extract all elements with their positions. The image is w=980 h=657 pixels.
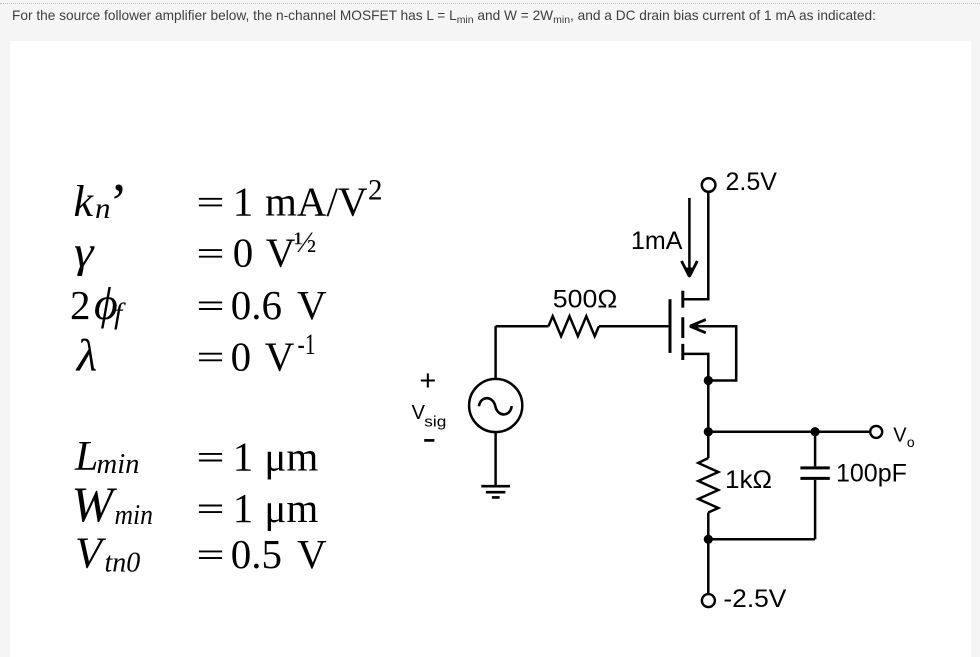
capacitor CL plates: [800, 468, 829, 479]
svg-text:2: 2: [70, 282, 91, 328]
wire Vsig top lead: [494, 326, 497, 379]
svg-text:V: V: [266, 230, 296, 276]
current arrow 1mA shaft: [688, 198, 691, 272]
svg-text:V: V: [893, 425, 907, 447]
current arrow 1mA head fill: [685, 268, 694, 279]
wire Vsig bottom lead: [494, 432, 497, 485]
svg-text:0: 0: [231, 333, 252, 379]
svg-text:100pF: 100pF: [836, 460, 907, 488]
svg-text:sig: sig: [424, 413, 446, 430]
equation value 1 um: [233, 434, 319, 480]
svg-text:mA/V: mA/V: [265, 178, 368, 224]
label Vsig: [412, 402, 447, 431]
svg-text:½: ½: [294, 226, 317, 259]
MOSFET gate bar: [669, 299, 672, 353]
MOSFET drain stub: [683, 298, 709, 301]
svg-text:2: 2: [368, 174, 383, 207]
capacitor CL leads: [814, 432, 817, 540]
wire bottom node: [708, 538, 815, 541]
equals row 4: [199, 354, 222, 361]
equation variable Vtn0: [75, 529, 140, 579]
equation variable 2 phi f: [70, 278, 126, 330]
current arrow 1mA head: [682, 261, 698, 277]
MOSFET body line: [690, 326, 736, 380]
svg-text:o: o: [907, 434, 915, 450]
svg-text:k: k: [74, 177, 95, 226]
equals row 2: [199, 250, 222, 257]
svg-text:L: L: [74, 434, 98, 480]
junction dot bottom node: [704, 535, 713, 544]
equals row 6: [199, 506, 222, 513]
wire source to output node: [707, 381, 710, 432]
svg-text:2.5V: 2.5V: [726, 168, 778, 196]
resistor RL bottom lead: [707, 513, 710, 540]
svg-text:n: n: [95, 192, 111, 225]
svg-text:μm: μm: [264, 485, 318, 531]
equals row 3: [199, 302, 222, 309]
equation value 0.6 V: [231, 282, 327, 328]
terminal VSS -2.5V: [702, 594, 715, 607]
equation value 0.5 V: [231, 531, 327, 577]
svg-text:1: 1: [233, 178, 254, 224]
junction dot source node: [704, 376, 713, 385]
svg-text:min: min: [115, 500, 154, 531]
svg-text:0.5: 0.5: [231, 531, 282, 577]
equals row 7: [199, 551, 222, 558]
source Vsig circle: [469, 379, 522, 432]
equals row 5: [199, 454, 222, 461]
equation value 1 mA/V^2: [233, 174, 383, 225]
wire to VSS terminal: [707, 539, 710, 593]
wire Vsig to resistor Rsig: [496, 325, 549, 328]
svg-text:V: V: [297, 531, 327, 577]
svg-text:500Ω: 500Ω: [553, 286, 618, 314]
terminal Vo circle: [870, 426, 882, 438]
wire gate lead: [599, 325, 668, 328]
equation variable Lmin: [74, 434, 140, 480]
svg-text:0.6: 0.6: [231, 282, 282, 328]
svg-text:V: V: [265, 333, 295, 379]
wire VDD to drain: [683, 193, 709, 300]
equals row 1: [199, 199, 222, 206]
terminal VDD 2.5V: [702, 178, 716, 192]
equation variable Wmin: [72, 476, 154, 532]
label Vo: [893, 425, 915, 450]
svg-text:0: 0: [233, 230, 254, 276]
svg-text:λ: λ: [75, 329, 98, 380]
label minus: [424, 439, 434, 442]
svg-text:1kΩ: 1kΩ: [725, 466, 772, 494]
svg-text:-2.5V: -2.5V: [723, 585, 786, 613]
junction dot cap top: [811, 427, 820, 436]
svg-text:’: ’: [110, 172, 128, 233]
svg-text:W: W: [72, 476, 118, 532]
wire output node to Vo terminal: [708, 430, 869, 433]
resistor RL zigzag: [698, 458, 718, 513]
svg-text:tn0: tn0: [105, 548, 141, 579]
equation variable kn': [74, 172, 128, 233]
ground symbol: [481, 486, 510, 497]
equation value 1 um row6: [233, 485, 319, 531]
MOSFET body arrowhead: [690, 320, 706, 333]
svg-text:-1: -1: [298, 328, 316, 361]
MOSFET channel segments: [681, 291, 684, 360]
resistor RL top lead: [707, 432, 710, 458]
svg-text:1: 1: [233, 434, 254, 480]
svg-text:γ: γ: [74, 228, 95, 277]
svg-text:μm: μm: [264, 434, 318, 480]
junction dot output node: [704, 427, 713, 436]
MOSFET body arrowhead fill: [689, 321, 699, 331]
source Vsig sine: [479, 398, 512, 414]
svg-text:V: V: [297, 282, 327, 328]
svg-text:+: +: [419, 365, 436, 397]
svg-text:1: 1: [233, 485, 254, 531]
svg-text:V: V: [75, 529, 107, 578]
resistor Rsig zigzag: [549, 316, 599, 336]
svg-text:1mA: 1mA: [631, 227, 683, 255]
equation value 0 V^-1: [231, 328, 316, 379]
svg-text:f: f: [114, 297, 126, 330]
equation value 0 V^1/2: [233, 226, 317, 276]
MOSFET source stub: [683, 354, 709, 381]
